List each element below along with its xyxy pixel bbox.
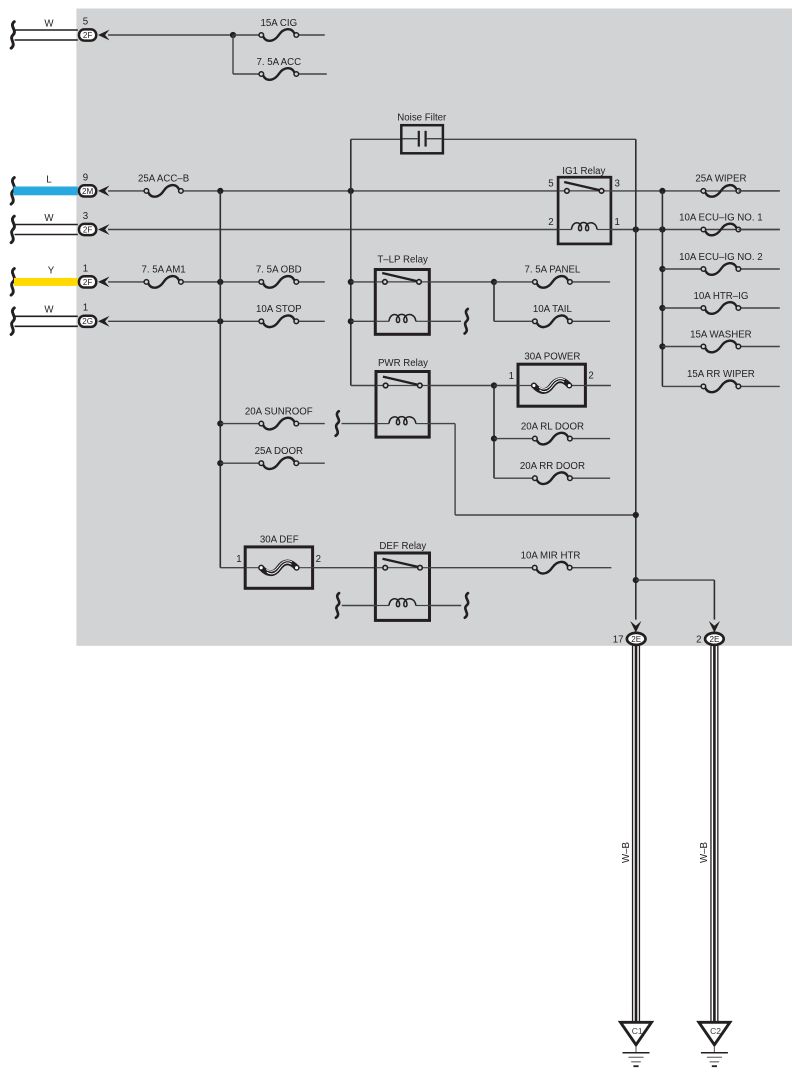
svg-text:5: 5 — [83, 16, 88, 27]
wire DEF coil left lead — [342, 605, 376, 607]
wire tail row — [494, 320, 535, 322]
relay PWR box — [376, 372, 429, 438]
fuse 10A STOP — [263, 315, 294, 327]
fuse 15A CIG — [263, 29, 294, 41]
svg-text:17: 17 — [613, 634, 624, 645]
wire W-B right — [710, 646, 712, 1022]
node htr / V7 — [659, 305, 665, 311]
svg-text:7. 5A ACC: 7. 5A ACC — [256, 57, 301, 68]
wire IG1 pin1 output row3 — [611, 229, 780, 231]
svg-text:10A STOP: 10A STOP — [256, 304, 302, 315]
svg-text:30A POWER: 30A POWER — [524, 352, 580, 363]
svg-text:1: 1 — [615, 217, 620, 228]
node ecu2 / V7 — [659, 266, 665, 272]
connector 2G oval — [79, 316, 96, 327]
svg-text:10A ECU–IG NO. 1: 10A ECU–IG NO. 1 — [679, 212, 762, 223]
fusible link 30A POWER box — [518, 364, 585, 406]
svg-text:L: L — [46, 174, 52, 185]
wire branch down to ACC fuse — [232, 35, 234, 74]
wire RR door row — [494, 477, 535, 479]
wire htr-ig row — [662, 307, 703, 309]
svg-text:1: 1 — [83, 263, 88, 274]
junction block shaded area — [76, 9, 792, 646]
svg-text:25A ACC–B: 25A ACC–B — [138, 174, 189, 185]
wire V2 to PWR relay switch — [351, 385, 376, 387]
fuse 7.5A PANEL — [537, 276, 568, 288]
svg-text:2F: 2F — [83, 278, 93, 287]
arrow into 2M — [98, 186, 110, 197]
wire T-LP switch output to PANEL — [429, 281, 494, 283]
PWR coil — [376, 423, 389, 425]
svg-text:Y: Y — [48, 265, 55, 276]
svg-text:2F: 2F — [83, 31, 93, 40]
connector 2E pin 17 oval — [627, 633, 646, 645]
svg-text:W: W — [44, 213, 54, 224]
svg-text:W–B: W–B — [699, 842, 710, 863]
svg-text:10A MIR HTR: 10A MIR HTR — [521, 551, 581, 562]
connector 2E pin 2 oval — [705, 633, 724, 645]
node row3 / V6 — [633, 226, 639, 232]
wire break after T-LP coil — [465, 309, 468, 334]
wire W-B left — [632, 646, 634, 1022]
svg-text:W: W — [44, 305, 54, 316]
fuse 25A ACC-B — [148, 185, 179, 197]
wire L (blue) to connector 2M — [14, 187, 78, 196]
wire to PWR relay coil — [342, 423, 377, 425]
svg-text:W–B: W–B — [621, 842, 632, 863]
PWR switch — [376, 385, 383, 387]
fuse 25A WIPER — [705, 185, 736, 197]
wire W to connector 2F pin 5 — [15, 29, 78, 31]
wire fuse CIG leads — [233, 34, 261, 36]
wire branch to second 2E — [636, 579, 715, 581]
node V2 row4 — [348, 279, 354, 285]
connector 2M oval — [79, 185, 96, 196]
node door / V1 — [217, 460, 223, 466]
svg-text:2E: 2E — [631, 635, 642, 644]
wire DEF switch output — [430, 567, 535, 569]
svg-text:7. 5A PANEL: 7. 5A PANEL — [524, 265, 580, 276]
svg-text:10A TAIL: 10A TAIL — [533, 304, 573, 315]
wire break squiggle row4 — [11, 269, 14, 296]
wire break squiggle row3 — [11, 216, 14, 243]
node RL door / V4 — [491, 436, 497, 442]
svg-text:5: 5 — [548, 179, 553, 190]
wire break left of DEF coil — [336, 593, 339, 618]
svg-text:15A CIG: 15A CIG — [260, 18, 297, 29]
svg-text:10A ECU–IG NO. 2: 10A ECU–IG NO. 2 — [679, 252, 762, 263]
wire 30A DEF to DEF relay — [313, 567, 376, 569]
svg-text:2: 2 — [548, 217, 553, 228]
svg-text:2: 2 — [696, 634, 701, 645]
svg-text:15A WASHER: 15A WASHER — [690, 329, 752, 340]
connector 2F pin 3 oval — [79, 224, 96, 235]
wire door row — [220, 462, 261, 464]
fuse 10A ECU-IG NO.1 — [705, 224, 736, 236]
fuse 10A HTR-IG — [705, 302, 736, 314]
wire row4 — [108, 281, 146, 283]
fuse 7.5A ACC — [263, 68, 294, 80]
wire IG1 pin3 output row2 — [611, 190, 780, 192]
svg-text:25A DOOR: 25A DOOR — [255, 446, 303, 457]
svg-text:Noise Filter: Noise Filter — [397, 113, 447, 124]
svg-text:PWR Relay: PWR Relay — [378, 358, 428, 369]
wire W to connector 2G — [15, 315, 78, 317]
node row4 / V1 — [217, 279, 223, 285]
svg-text:C1: C1 — [632, 1026, 643, 1036]
svg-text:9: 9 — [83, 172, 88, 183]
wire W to connector 2F pin 3 — [15, 224, 78, 226]
wire break squiggle row1 — [11, 22, 14, 49]
svg-text:7. 5A OBD: 7. 5A OBD — [256, 265, 302, 276]
relay DEF box — [375, 553, 429, 620]
node row2 / vertical V2 — [348, 188, 354, 194]
arrow into 2E pin2 — [709, 621, 720, 633]
wire sunroof row — [220, 423, 261, 425]
fuse 10A ECU-IG NO.2 — [705, 263, 736, 275]
wire vertical V4 lower — [493, 386, 495, 479]
wire panel row — [494, 281, 535, 283]
fusible link 30A DEF box — [245, 547, 312, 588]
svg-text:15A RR WIPER: 15A RR WIPER — [687, 369, 755, 380]
wire row1 from connector to fuses — [108, 34, 233, 36]
fuse 25A DOOR — [263, 457, 294, 469]
30A POWER link element — [518, 385, 534, 387]
wire PWR coil return — [429, 423, 455, 425]
svg-text:20A SUNROOF: 20A SUNROOF — [245, 406, 313, 417]
svg-text:3: 3 — [83, 211, 88, 222]
wire vertical bus V1 — [219, 191, 221, 568]
fuse 10A TAIL — [537, 315, 568, 327]
IG1 switch — [558, 190, 565, 192]
wire RL door row — [494, 438, 535, 440]
fuse 20A SUNROOF — [263, 418, 294, 430]
arrow into 2F — [98, 30, 110, 41]
fuse 7.5A OBD — [263, 276, 294, 288]
wire break before PWR relay coil — [336, 411, 339, 436]
wire row2 main — [108, 190, 146, 192]
svg-text:1: 1 — [83, 303, 88, 314]
wire rr wiper row — [662, 385, 703, 387]
wire Y (yellow) to connector 2F pin 1 — [14, 278, 78, 286]
fuse 20A RL DOOR — [537, 433, 568, 445]
wire break right of DEF coil — [465, 593, 468, 618]
wire V2 to T-LP relay coil — [351, 320, 376, 322]
node row2 / vertical V1 — [217, 188, 223, 194]
svg-text:W: W — [44, 18, 54, 29]
svg-text:30A DEF: 30A DEF — [260, 534, 299, 545]
wire row3 to IG1 relay pin 2 — [108, 229, 558, 231]
svg-text:DEF Relay: DEF Relay — [379, 541, 426, 552]
node row5 / V1 — [217, 318, 223, 324]
capacitor plates — [403, 138, 418, 140]
svg-text:25A WIPER: 25A WIPER — [695, 174, 746, 185]
svg-text:20A RL DOOR: 20A RL DOOR — [521, 421, 584, 432]
fuse 10A MIR HTR — [537, 562, 568, 574]
svg-text:10A HTR–IG: 10A HTR–IG — [693, 291, 748, 302]
svg-text:2G: 2G — [82, 317, 93, 326]
fuse 7.5A AM1 — [148, 276, 179, 288]
svg-text:3: 3 — [615, 179, 620, 190]
svg-text:2: 2 — [316, 554, 321, 565]
node V6 coil return — [633, 512, 639, 518]
svg-text:1: 1 — [236, 554, 241, 565]
wire washer row — [662, 346, 703, 348]
svg-text:2E: 2E — [709, 635, 720, 644]
fuse 20A RR DOOR — [537, 472, 568, 484]
svg-text:2: 2 — [588, 371, 593, 382]
DEF coil — [375, 605, 389, 607]
node row2 / V7 — [659, 188, 665, 194]
wire PWR switch output — [429, 385, 494, 387]
T-LP coil — [375, 320, 389, 322]
30A DEF link element — [245, 567, 261, 569]
svg-text:1: 1 — [509, 371, 514, 382]
fuse 15A RR WIPER — [705, 381, 736, 393]
node V2 row5 — [348, 318, 354, 324]
noise filter capacitor box — [401, 125, 443, 153]
svg-text:20A RR DOOR: 20A RR DOOR — [520, 461, 585, 472]
svg-text:2F: 2F — [83, 225, 93, 234]
svg-text:C2: C2 — [710, 1026, 721, 1036]
wire after 30A POWER — [585, 385, 611, 387]
wire vertical bus V2 — [350, 139, 352, 385]
svg-text:2M: 2M — [82, 187, 94, 196]
relay IG1 box — [558, 177, 611, 244]
wire 30A DEF feed — [220, 567, 245, 569]
node PWR out / V4 — [491, 382, 497, 388]
node junction row1 — [230, 32, 236, 38]
fuse 15A WASHER — [705, 341, 736, 353]
arrow into 2E pin17 — [630, 621, 641, 633]
wire vertical V7 fuse bank — [661, 191, 663, 387]
node washer / V7 — [659, 343, 665, 349]
wire break squiggle row2 — [11, 178, 14, 205]
wire row5 — [108, 320, 261, 322]
T-LP switch — [375, 281, 382, 283]
node panel / V4 — [491, 279, 497, 285]
DEF switch — [375, 567, 383, 569]
wire V2 to T-LP relay switch — [351, 281, 376, 283]
wire noise filter row — [351, 138, 402, 140]
node row3 / V7 — [659, 226, 665, 232]
svg-text:IG1 Relay: IG1 Relay — [562, 166, 605, 177]
arrow into 2G — [98, 316, 110, 327]
wire PWR out to 30A POWER — [494, 385, 518, 387]
connector 2F pin 1 oval — [79, 276, 96, 287]
arrow into 2F pin1 — [98, 277, 110, 288]
wire vertical trunk V6 — [635, 139, 637, 619]
IG1 coil — [558, 229, 571, 231]
node sunroof / V1 — [217, 421, 223, 427]
ground C1 — [621, 1022, 652, 1045]
ground C2 — [699, 1022, 730, 1045]
wire break squiggle row5 — [11, 308, 14, 335]
wire vertical V4 upper — [493, 282, 495, 321]
relay T-LP box — [375, 270, 429, 335]
connector 2F pin 5 oval — [79, 29, 96, 40]
wire DEF coil right lead — [430, 605, 462, 607]
svg-text:T–LP Relay: T–LP Relay — [377, 254, 428, 265]
wire after ACC fuse — [296, 73, 327, 75]
node V6 branch 2E — [633, 577, 639, 583]
arrow into 2F pin3 — [98, 224, 110, 235]
svg-text:7. 5A AM1: 7. 5A AM1 — [142, 265, 186, 276]
wire ecu-ig2 row — [662, 268, 703, 270]
wire T-LP coil output — [429, 320, 461, 322]
